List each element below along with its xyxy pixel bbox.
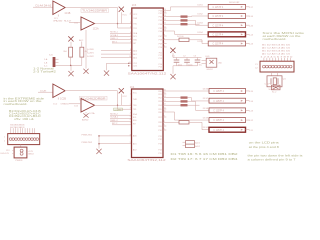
svg-text:11: 11 [129,62,131,64]
svg-text:DIS14 U$P: DIS14 U$P [229,2,240,4]
wire RN1a to display DIS2 [188,15,209,18]
wire header SV1 pin stubs [11,128,35,133]
supply VCC arrow top [119,7,128,24]
junction node N3 [117,104,119,106]
note bottom right detail [248,155,304,162]
svg-text:P01: P01 [159,13,162,15]
display DIS5 [198,41,254,46]
svg-text:AD0: AD0 [133,135,137,138]
svg-text:9: 9 [164,35,165,37]
IC4 right pin numbers [164,90,166,131]
IC4 left pin numbers [130,94,131,145]
svg-text:S-2W2: S-2W2 [87,56,94,58]
svg-text:7: 7 [164,42,165,44]
svg-text:7: 7 [130,42,131,44]
svg-text:P11: P11 [159,52,162,54]
svg-text:P05: P05 [159,28,162,30]
ground GND3 [104,71,109,76]
svg-text:AGND: AGND [82,119,89,122]
op-amp IC2A [81,17,95,30]
svg-text:11: 11 [164,108,166,110]
svg-text:A1C2A3C4A5C6: A1C2A3C4A5C6 [10,126,24,129]
svg-text:B1 D2 B3 D4 B5 D6: B1 D2 B3 D4 B5 D6 [262,51,290,53]
svg-text:6: 6 [164,46,165,48]
svg-text:P04: P04 [159,24,162,26]
ground GND6 [96,149,101,154]
wire IN1 to op-amp IC1A [33,6,53,8]
svg-text:7: 7 [130,122,131,124]
svg-text:10: 10 [129,56,131,58]
svg-text:P02: P02 [158,97,161,99]
wire GND stem [70,65,72,70]
display DIS6 [203,88,254,93]
svg-text:1C4: 1C4 [130,86,135,89]
wire net S2W2 [101,57,132,59]
svg-text:NL4-07: NL4-07 [64,20,72,22]
svg-text:1: 1 [4,137,5,139]
wire SV1 to power jack [20,145,22,148]
svg-text:P00: P00 [158,91,161,93]
wire GND stem caps [172,66,174,74]
svg-text:16: 16 [164,90,166,92]
svg-text:4: 4 [130,113,131,115]
wire net PWM1 [99,135,132,137]
wire IN4 to op-amp IC2C [69,103,81,105]
wire group SPI net MOSI [110,32,132,34]
svg-text:x5v. t30 u1: x5v. t30 u1 [14,118,35,121]
svg-text:at the pins 4 and 8: at the pins 4 and 8 [249,146,280,149]
svg-text:the pin two down the left side: the pin two down the left side is [248,155,304,158]
svg-text:INT-1: INT-1 [112,41,118,43]
svg-text:1: 1 [130,13,131,15]
svg-text:C 1157P 4: C 1157P 4 [213,44,224,46]
svg-text:P12: P12 [159,55,162,57]
wire to resistor R2 [81,42,83,48]
ground GND4 [170,74,175,79]
resistor array RN1b [181,19,188,21]
svg-text:D1S7: D1S7 [203,98,209,100]
wire RN2a to display DIS7 [188,98,210,101]
svg-text:S-2W0: S-2W0 [87,49,94,51]
LED U$1 box [202,56,223,71]
svg-text:1-13: 1-13 [249,44,254,46]
svg-text:P07: P07 [159,36,162,38]
svg-text:AD2: AD2 [133,56,137,59]
IC IC3 (top driver) [132,8,164,71]
svg-text:LED-12V: LED-12V [1,153,10,155]
wire IC2C ground stub [85,112,87,113]
IC3 left pin stubs [130,13,132,15]
wire header SV2 pin stubs [264,58,291,61]
wire cap top rail [173,57,202,59]
svg-text:a column defined pin 9 to 7: a column defined pin 9 to 7 [248,158,297,161]
wire op-amp IC2B output [65,91,131,109]
resistor R2 [80,47,84,57]
node labels header SV1 [10,125,24,129]
wire group SPI net SCK [110,35,132,37]
svg-text:10u: 10u [199,64,202,66]
crystal Q1 [267,76,287,91]
svg-text:TR0: TR0 [133,23,137,25]
IC4 internal pin names left [133,92,138,151]
svg-text:14: 14 [164,15,166,17]
svg-text:SCL: SCL [133,117,137,119]
svg-text:AD2: AD2 [133,149,137,152]
IC3 right pin numbers [164,9,166,48]
wire RN1c stub [188,23,200,25]
svg-text:C 1157P 4: C 1157P 4 [213,25,224,27]
wire op-amp IC2A ground stub [85,30,87,69]
wire op-amp IC2C output [95,104,132,106]
svg-text:P10: P10 [158,130,161,132]
svg-text:C 1157P 4: C 1157P 4 [213,120,224,122]
svg-text:C 1157P 4: C 1157P 4 [213,16,224,18]
svg-text:8: 8 [130,134,131,136]
display DIS7 [203,98,254,103]
resistor array RN1c [181,23,188,25]
svg-text:1-13: 1-13 [249,110,254,112]
wire op-amp IC1A output [65,8,132,29]
svg-text:6: 6 [164,129,165,131]
value label TLV2462DRBR [81,9,109,13]
svg-text:+12V: +12V [28,151,34,153]
svg-text:1: 1 [130,94,131,96]
svg-text:8: 8 [164,121,165,123]
wire pin to display DIS4 [167,31,209,34]
svg-text:1C3: 1C3 [132,4,137,7]
wire RN1b to display DIS3 [188,20,209,25]
svg-text:5: 5 [130,116,131,118]
wire group SPI2 net MOSI [110,114,132,116]
svg-text:P10: P10 [159,47,162,49]
svg-text:100n: 100n [178,64,182,66]
svg-text:P05: P05 [158,109,161,111]
svg-text:C1LP4: C1LP4 [265,84,272,86]
svg-text:D1S3: D1S3 [198,23,204,25]
junction pins NC [128,63,129,64]
resistor array RN2b [181,100,188,102]
ground GND1 [83,69,88,74]
svg-text:9: 9 [130,53,131,55]
svg-text:PWR01: PWR01 [15,160,23,162]
jumper JP2 [183,141,201,149]
svg-text:C 1157P 4: C 1157P 4 [213,130,224,132]
svg-text:P14: P14 [159,64,162,66]
svg-text:P07: P07 [158,117,161,119]
wire R4 to display DIS5 [189,40,208,44]
resistor R5 [179,121,189,124]
svg-text:P02: P02 [159,16,162,18]
svg-text:C 1157P 4: C 1157P 4 [213,7,224,9]
svg-text:on the LCD pins: on the LCD pins [249,142,280,145]
svg-text:D1S1: D1S1 [198,4,204,6]
svg-text:4: 4 [130,32,131,34]
svg-text:12: 12 [164,104,166,106]
svg-text:11: 11 [164,27,166,29]
svg-text:D1S8: D1S8 [203,108,209,110]
svg-text:D1S4: D1S4 [198,32,204,34]
wire group SPI2 net SCK [110,117,132,119]
svg-text:A1 C2 A3 C4 A5 C6: A1 C2 A3 C4 A5 C6 [262,47,290,50]
display DIS3 [198,23,254,28]
svg-text:D1S2: D1S2 [198,13,204,15]
junction node N1 [117,23,119,25]
svg-text:SCKA-2: SCKA-2 [110,116,119,119]
wire SV2 to Q1 [271,72,273,76]
display DIS2 [198,13,254,18]
connector SV1 [8,134,40,145]
wire cap bottom rail [173,65,198,67]
wire group SPI2 net SS [110,120,132,122]
svg-text:VCC: VCC [122,14,127,16]
svg-text:PWM-2W2: PWM-2W2 [82,142,93,144]
svg-text:GN-D2: GN-D2 [207,69,214,71]
wire IN3 to op-amp IC2B [38,91,53,93]
svg-text:P03: P03 [159,20,162,22]
svg-text:P15: P15 [158,153,161,155]
svg-text:S-2W1: S-2W1 [87,53,94,55]
wire group SPI net INT [112,42,132,44]
svg-text:LED5V: LED5V [114,109,121,111]
resistor array RN2a [181,96,188,98]
svg-text:2: 2 [130,104,131,106]
display DIS1 [198,4,254,9]
svg-text:TR0: TR0 [133,105,137,107]
svg-text:MOSI-2: MOSI-2 [110,114,118,116]
op-amp IC1A [53,1,65,15]
svg-text:THR: THR [133,99,138,101]
svg-text:1-14: 1-14 [249,101,254,103]
ground GND5 [82,113,89,121]
svg-text:P09: P09 [158,126,161,128]
svg-text:A1 C2 A3 C4 A5 C6: A1 C2 A3 C4 A5 C6 [262,53,290,56]
connector X1 power [1,147,35,162]
svg-text:1-17: 1-17 [249,7,254,9]
wire pin to display DIS9 [166,112,209,120]
svg-text:CX2: CX2 [133,66,137,68]
svg-text:P06: P06 [159,31,162,33]
svg-text:INT-2: INT-2 [112,123,118,125]
wire to display DIS1 [167,7,209,11]
svg-text:12V: 12V [6,150,10,152]
svg-text:VCC: VCC [122,96,127,98]
IC3 internal pin names left [133,14,138,68]
svg-text:SCKA-1: SCKA-1 [110,34,119,37]
svg-text:13: 13 [164,19,166,21]
svg-text:1C2A: 1C2A [93,28,99,31]
supply VCC arrow bottom [119,88,128,105]
resistor array RN1a [181,15,188,17]
IC3 left pin numbers [129,13,131,64]
capacitor C3 [194,56,202,67]
note from the MOSI wire [263,31,305,41]
svg-text:100n: 100n [188,64,192,66]
node LED5V olive label [114,108,123,111]
svg-text:SSEL-2: SSEL-2 [110,120,118,122]
resistor array RN2c [181,104,188,106]
svg-text:15: 15 [164,12,166,14]
svg-text:13: 13 [164,100,166,102]
svg-text:LED: LED [206,56,210,58]
svg-text:SAA1064T/N2,112: SAA1064T/N2,112 [127,158,166,162]
junction node N2 [70,65,72,67]
capacitor C1 [172,56,182,67]
wire to display DIS6 [166,90,209,92]
svg-text:AD0: AD0 [133,49,137,52]
svg-text:1-12: 1-12 [249,120,254,122]
jumper SJ1 [44,54,59,67]
svg-text:7: 7 [164,125,165,127]
svg-text:P15: P15 [159,67,162,69]
IC4 right pin stubs [163,91,181,130]
svg-text:1-14: 1-14 [249,34,254,36]
svg-text:D1S6: D1S6 [203,88,209,90]
svg-text:B1 D2 B3 D4 B5 D6: B1 D2 B3 D4 B5 D6 [262,44,290,46]
svg-text:SSEL-1: SSEL-1 [110,38,118,40]
svg-text:1-16: 1-16 [249,16,254,18]
svg-text:P11: P11 [158,136,161,138]
wire IC1A feedback stub [57,15,59,17]
wire RN2b to display DIS8 [188,101,210,110]
svg-text:SCL: SCL [133,36,137,38]
svg-text:P04: P04 [158,105,161,107]
svg-text:R4 100: R4 100 [177,36,184,38]
IC3 right pin stubs [163,11,180,48]
wire group SPI net SS [110,39,132,41]
solder jumper SJ2 [265,84,281,94]
supply VCC arrow caps [170,48,175,58]
svg-text:8: 8 [164,38,165,40]
svg-text:P09: P09 [159,43,162,45]
svg-text:C 1157P 4: C 1157P 4 [213,111,224,113]
svg-text:14: 14 [164,96,166,98]
svg-text:AVC: AVC [79,39,84,42]
svg-text:3: 3 [130,27,131,29]
svg-text:D1S5: D1S5 [198,41,204,43]
svg-text:PWM-2W1: PWM-2W1 [82,134,93,136]
display DIS8 [203,108,254,113]
op-amp IC2B [53,84,65,98]
svg-text:P13: P13 [159,58,162,60]
svg-text:VCC: VCC [133,92,138,94]
svg-text:motherboard.: motherboard. [4,102,28,106]
svg-text:6: 6 [130,119,131,121]
svg-text:2-3 Turbo#2: 2-3 Turbo#2 [33,70,56,74]
resistor R4 [179,38,189,41]
svg-text:10: 10 [164,111,166,113]
svg-text:GND2: GND2 [28,154,35,156]
svg-text:P12: P12 [158,139,161,141]
svg-text:MOSI-1: MOSI-1 [110,32,118,34]
wire resistor bottoms [70,57,72,65]
connector SV2 [260,61,294,72]
wire IN2 to op-amp IC2A [69,21,81,23]
svg-text:6: 6 [130,38,131,40]
svg-text:TR1: TR1 [133,28,137,30]
op-amp IC2C [81,99,95,113]
svg-text:C 1157P 4: C 1157P 4 [213,34,224,36]
resistor R1 [69,47,73,57]
svg-text:15: 15 [164,93,166,95]
svg-text:SJ_2: SJ_2 [272,92,276,94]
wire PWM ground stem [98,136,100,149]
junction node N4 [98,135,100,137]
capacitor C2 [183,56,192,67]
svg-text:P14: P14 [158,150,161,152]
svg-text:SS0: SS0 [133,39,137,41]
svg-text:8: 8 [130,49,131,51]
note pin table left [9,110,41,121]
svg-text:C 1157P 4: C 1157P 4 [213,101,224,103]
svg-text:D1 T08 16: 5 6 16 CM DB1 DB2: D1 T08 16: 5 6 16 CM DB1 DB2 [171,152,239,156]
svg-text:9: 9 [130,142,131,144]
svg-text:12: 12 [164,23,166,25]
wire IC2B feedback stub [57,98,59,100]
display DIS9 [203,118,254,123]
wire group SPI2 net INT [112,124,132,126]
svg-text:VCC: VCC [133,14,138,16]
IC IC4 (bottom driver) [132,89,164,158]
svg-text:1C2A: 1C2A [89,112,95,115]
display DIS4 [198,32,254,37]
svg-text:P08: P08 [158,122,161,124]
svg-text:1-15: 1-15 [249,91,254,93]
wire net S2W1 [101,53,132,55]
svg-text:10: 10 [164,30,166,32]
svg-text:motherboard.: motherboard. [263,37,287,41]
svg-text:TLV2462DRBR: TLV2462DRBR [82,9,107,13]
wire op-amp IC2A output [95,23,132,25]
svg-text:2: 2 [130,22,131,24]
wire NC pin to ground [107,62,132,64]
value label TLV2462DRBR bottom [80,96,108,100]
svg-text:OPA234: OPA234 [61,103,70,106]
svg-text:AD1: AD1 [133,53,137,56]
svg-text:3: 3 [130,108,131,110]
svg-text:P13: P13 [158,144,161,146]
svg-text:1C2B: 1C2B [60,98,66,101]
svg-text:TR1: TR1 [133,109,137,111]
ground GND2 [68,71,73,76]
svg-text:5: 5 [130,35,131,37]
svg-text:D1S9: D1S9 [203,118,209,120]
svg-text:P01: P01 [158,94,161,96]
note in the EXTREME side [4,96,45,106]
svg-text:P06: P06 [158,112,161,114]
svg-text:1-15: 1-15 [249,25,254,27]
svg-text:P08: P08 [159,40,162,42]
svg-text:AD1: AD1 [133,143,137,146]
note on the LCD pins [249,142,280,149]
node labels header SV2 [260,44,292,58]
IC3 internal pin names right [159,10,162,68]
svg-text:THR: THR [133,18,138,20]
svg-text:C 1157P 4: C 1157P 4 [213,91,224,93]
svg-text:SAA1064T/N2,112: SAA1064T/N2,112 [128,71,167,75]
svg-text:P03: P03 [158,101,161,103]
supply VCC arrow left [68,36,73,47]
wire RN2c stub [188,104,200,106]
IC4 internal pin names right [158,91,161,155]
svg-text:1C1B: 1C1B [64,12,70,15]
wire net PWM2 [99,143,132,145]
wire R5 to display DIS10 [189,122,209,129]
svg-text:2: 2 [4,140,5,142]
svg-text:OPA2340: OPA2340 [53,19,63,22]
svg-text:SS0: SS0 [133,120,137,122]
svg-text:D2 T09 17: 6 7 17 CM DB3 DB4: D2 T09 17: 6 7 17 CM DB3 DB4 [171,157,239,161]
wire net S2W0 [101,50,132,52]
